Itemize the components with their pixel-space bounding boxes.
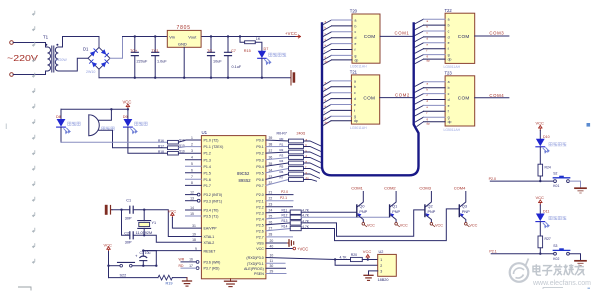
push button S2 (554, 180, 557, 183)
svg-text:b: b (448, 86, 450, 90)
svg-text:R24: R24 (545, 165, 551, 169)
svg-text:P0.7: P0.7 (256, 184, 263, 188)
wire LED to R24 (539, 147, 541, 164)
svg-text:f: f (448, 47, 449, 51)
svg-text:P1.7: P1.7 (204, 184, 211, 188)
svg-text:f: f (448, 110, 449, 114)
wire S2 to ground (569, 181, 580, 188)
wire bridge + output (110, 37, 123, 59)
LED D9 run (127, 109, 129, 119)
connector T22 (445, 13, 475, 63)
wire VCC to EA/VPP (172, 218, 201, 229)
T20 COM wire (380, 35, 412, 37)
bus main loop (322, 24, 419, 176)
svg-text:P3.3 (INT1): P3.3 (INT1) (204, 199, 223, 203)
svg-text:P0.5: P0.5 (256, 171, 263, 175)
wire TXD P3.1 stub (266, 262, 285, 264)
svg-text:K02: K02 (553, 257, 559, 261)
power port VCC at Q2 (430, 223, 433, 226)
svg-text:P0.2: P0.2 (256, 152, 263, 156)
wire P2.2 stub (266, 206, 293, 208)
svg-text:P2.1: P2.1 (256, 199, 263, 203)
push button S3 (554, 252, 557, 255)
power port +VCC (296, 35, 301, 38)
faint underline dash (543, 287, 563, 289)
svg-text:VCC: VCC (536, 121, 545, 126)
resistor R11 (266, 211, 290, 214)
svg-text:D10: D10 (543, 135, 550, 139)
svg-text:TC: TC (207, 49, 212, 53)
svg-text:c: c (354, 91, 356, 95)
svg-text:P0.4: P0.4 (256, 165, 263, 169)
svg-text:3: 3 (380, 270, 382, 274)
svg-text:P2.0: P2.0 (281, 190, 288, 194)
svg-text:U2: U2 (379, 250, 384, 254)
capacitor C1 30P (130, 206, 133, 213)
svg-text:P2.0: P2.0 (256, 193, 263, 197)
resistor R27 (538, 236, 543, 248)
resistor R17 (168, 146, 179, 150)
svg-text:R18: R18 (158, 150, 164, 154)
svg-text:e: e (355, 42, 357, 46)
svg-text:dp: dp (325, 120, 329, 124)
svg-text:R16: R16 (158, 139, 164, 143)
ground key2 (575, 261, 586, 266)
svg-text:P1.2: P1.2 (204, 152, 211, 156)
SECTION: bus and connectors (266, 8, 509, 186)
pin P3.6 WR (196, 261, 199, 264)
svg-text:+VCC: +VCC (285, 31, 297, 36)
wire reset node (143, 251, 156, 266)
svg-text:VCC: VCC (123, 100, 132, 105)
svg-text:P0.6: P0.6 (256, 178, 263, 182)
pin VCC wire to +VCC (266, 248, 293, 250)
svg-text:P1.5: P1.5 (204, 171, 211, 175)
resistor R19 zigzag (158, 275, 172, 280)
svg-text:14: 14 (190, 206, 194, 210)
wire VCC down reset (108, 252, 110, 278)
svg-text:40: 40 (270, 244, 274, 248)
svg-text:P3.2 (INT0): P3.2 (INT0) (204, 193, 223, 197)
wire AC bottom (13, 74, 45, 76)
svg-text:13: 13 (190, 197, 194, 201)
svg-text:COM: COM (458, 34, 470, 39)
wire R27 to node (539, 248, 541, 254)
svg-text:20: 20 (270, 239, 274, 243)
svg-text:c: c (355, 30, 357, 34)
watermark hanzi 友 (575, 264, 585, 275)
regulator U3 7805 (167, 30, 201, 47)
ground reset (183, 278, 192, 287)
wire buzzer top (98, 109, 111, 120)
svg-text:P0.0: P0.0 (256, 139, 263, 143)
transistor Q1 PNP (390, 192, 401, 223)
wire S3 to ground (569, 254, 580, 261)
wire PSEN stub (266, 273, 286, 275)
svg-text:RESET: RESET (204, 250, 217, 254)
wire base Q0 (301, 211, 357, 213)
svg-text:P2.1: P2.1 (280, 196, 287, 200)
svg-text:R5: R5 (280, 165, 284, 169)
svg-text:dp: dp (427, 121, 431, 125)
wire R15 to LED (255, 42, 262, 51)
svg-text:C2: C2 (124, 231, 129, 235)
svg-text:VCC: VCC (536, 195, 545, 200)
svg-text:5: 5 (191, 162, 193, 166)
svg-text:PNP: PNP (428, 210, 436, 214)
capacitor C7 0.1uF (225, 37, 232, 78)
LED D10 (539, 130, 541, 138)
svg-text:R14: R14 (282, 225, 288, 229)
power port VCC at Q1 (395, 223, 398, 226)
switch S22 reset (109, 265, 120, 267)
svg-text:R11: R11 (282, 208, 288, 212)
svg-text:b: b (354, 85, 356, 89)
svg-text:dp: dp (325, 60, 329, 64)
svg-text:1K: 1K (256, 37, 261, 41)
svg-text:(TXD)P3.1: (TXD)P3.1 (247, 262, 264, 266)
svg-text:240Ω: 240Ω (297, 132, 306, 136)
wire P2.0 stub (266, 194, 293, 196)
svg-text:COM1: COM1 (351, 185, 363, 190)
svg-text:8: 8 (191, 181, 193, 185)
svg-text:31: 31 (192, 224, 196, 228)
resistor R13 (266, 223, 290, 225)
svg-text:d: d (448, 98, 450, 102)
resistor R15 (240, 37, 245, 43)
svg-text:f: f (355, 48, 356, 52)
svg-text:COM: COM (458, 96, 470, 101)
connector T20 (352, 14, 380, 63)
svg-text:Vout: Vout (188, 35, 197, 40)
resistor R14 (266, 229, 290, 231)
svg-text:COM2: COM2 (384, 185, 396, 190)
svg-text:38: 38 (269, 142, 273, 146)
svg-text:COM1: COM1 (395, 31, 410, 36)
resistor R4 and wires (266, 163, 289, 166)
svg-text:COM3: COM3 (489, 30, 504, 35)
svg-text:D8: D8 (56, 115, 61, 119)
svg-text:8V20W: 8V20W (55, 58, 67, 62)
svg-text:COM2: COM2 (395, 93, 410, 98)
resistor R6 and wires (266, 174, 289, 179)
watermark square (587, 123, 591, 127)
svg-text:PNP: PNP (392, 210, 400, 214)
svg-text:COM4: COM4 (489, 93, 504, 98)
svg-text:R20: R20 (351, 253, 357, 257)
terminal P1 top (10, 41, 14, 45)
svg-text:EA/VPP: EA/VPP (204, 227, 218, 231)
wire R19 to ground (172, 277, 187, 279)
svg-text:P2.1: P2.1 (489, 249, 496, 253)
wire branch to pin2 (335, 260, 378, 266)
svg-text:Q3: Q3 (462, 204, 467, 208)
svg-text:Y1: Y1 (152, 221, 157, 225)
pin P3.4 T0 (186, 209, 202, 211)
svg-text:XTAL1: XTAL1 (204, 235, 215, 239)
svg-text:P2.6: P2.6 (256, 229, 263, 233)
svg-text:TC+: TC+ (130, 49, 138, 53)
wire to pin1 through resistor (335, 259, 378, 261)
svg-text:COM: COM (363, 95, 375, 100)
svg-text:37: 37 (269, 149, 273, 153)
wire base Q1 (301, 216, 389, 218)
transistor Q0 PNP (357, 192, 368, 223)
svg-text:6: 6 (191, 169, 193, 173)
svg-text:T21: T21 (350, 70, 358, 75)
T23 COM wire (475, 97, 509, 99)
svg-text:21: 21 (269, 190, 273, 194)
svg-text:S2: S2 (553, 172, 557, 176)
power port VCC at Q3 (465, 223, 468, 226)
crystal Y1 11.0592M (143, 210, 145, 236)
wire bottom reset (109, 277, 159, 279)
svg-text:1: 1 (380, 258, 382, 262)
resistor R0 and wires (266, 140, 289, 141)
svg-text:R27: R27 (545, 237, 551, 241)
svg-text:0.1uF: 0.1uF (232, 65, 242, 69)
svg-text:COM: COM (364, 34, 376, 39)
svg-text:dp: dp (448, 120, 452, 124)
resistor R1 and wires (266, 146, 289, 148)
svg-text:LG5011AH: LG5011AH (350, 65, 367, 69)
svg-text:D11: D11 (543, 210, 549, 214)
svg-text:VSS: VSS (257, 242, 265, 246)
pin numbers left (189, 136, 197, 268)
svg-text:R17: R17 (158, 144, 164, 148)
svg-text:1: 1 (191, 136, 193, 140)
svg-text:P3.7 (RD): P3.7 (RD) (204, 267, 220, 271)
resistor R5 and wires (266, 169, 289, 173)
wire rail alarm top (61, 108, 128, 110)
svg-text:e: e (354, 103, 356, 107)
svg-text:R12: R12 (282, 214, 288, 218)
svg-text:11: 11 (270, 259, 274, 263)
capacitor TC+ 220uF (131, 37, 138, 78)
resistor R16 (168, 140, 179, 144)
SECTION: transistors (266, 185, 478, 240)
watermark hanzi 电 (533, 264, 585, 275)
paragraph marks column (33, 11, 35, 264)
svg-text:LG5011AH: LG5011AH (444, 65, 461, 69)
svg-text:e: e (448, 104, 450, 108)
svg-text:R19: R19 (166, 282, 173, 286)
svg-text:www.elecfans.com: www.elecfans.com (532, 280, 591, 287)
svg-text:e: e (448, 41, 450, 45)
svg-text:28: 28 (269, 233, 273, 237)
transistor Q3 PNP (459, 192, 470, 223)
svg-text:C3 10u: C3 10u (140, 251, 151, 255)
svg-text:VCC: VCC (363, 249, 372, 254)
svg-text:g: g (448, 116, 450, 120)
transistor Q2 PNP (425, 192, 436, 223)
svg-text:24: 24 (269, 209, 273, 213)
svg-text:29: 29 (270, 269, 274, 273)
svg-text:d: d (355, 36, 357, 40)
svg-text:P1.1 (T2EX): P1.1 (T2EX) (204, 145, 224, 149)
svg-text:RD: RD (179, 264, 184, 268)
svg-text:89C52: 89C52 (237, 171, 250, 176)
svg-text:c: c (448, 29, 450, 33)
svg-text:P1.6: P1.6 (204, 178, 211, 182)
wire pin3 to ground (369, 271, 378, 275)
svg-text:dp: dp (306, 176, 310, 180)
capacitor TC1 (152, 37, 159, 78)
svg-text:15: 15 (190, 212, 194, 216)
svg-text:K01: K01 (553, 184, 559, 188)
svg-text:R4: R4 (280, 159, 284, 163)
svg-text:P1.0 (T2): P1.0 (T2) (204, 139, 219, 143)
wire ALE stub (266, 267, 286, 269)
SECTION: power supply (7, 25, 301, 85)
wire R24 to node (539, 176, 541, 181)
svg-text:10uF: 10uF (213, 60, 222, 64)
SECTION: mcu (179, 130, 309, 286)
pin VSS wire and ground (266, 242, 288, 244)
svg-text:R15: R15 (244, 49, 251, 53)
svg-text:7805: 7805 (177, 25, 191, 31)
pin P3.7 RD (196, 267, 199, 270)
svg-text:P3.6 (WR): P3.6 (WR) (204, 261, 221, 265)
connector T21 (351, 75, 379, 124)
svg-text:T23: T23 (445, 70, 453, 75)
svg-text:b: b (355, 24, 357, 28)
transformer T1 (46, 43, 61, 75)
svg-text:P2.3: P2.3 (256, 211, 263, 215)
svg-text:U1: U1 (202, 130, 208, 135)
svg-text:COM3: COM3 (419, 185, 431, 190)
pin P3.5 T1 (186, 215, 202, 217)
svg-text:1.0uF: 1.0uF (157, 60, 167, 64)
power port VCC at Q0 (362, 223, 365, 226)
wire AC top (13, 42, 45, 44)
svg-text:dp: dp (355, 58, 359, 62)
svg-text:COM4: COM4 (454, 185, 466, 190)
svg-text:d: d (448, 35, 450, 39)
svg-text:ALE(PROG): ALE(PROG) (244, 267, 264, 271)
watermark hanzi 子 (542, 266, 552, 276)
junction dots PSU (134, 35, 263, 79)
mcu U1 89C52 (201, 136, 266, 279)
svg-text:7: 7 (191, 175, 193, 179)
svg-text:S3: S3 (553, 244, 557, 248)
svg-text:19: 19 (192, 232, 196, 236)
svg-text:2W10: 2W10 (86, 70, 95, 74)
wire D8 bottom rail (61, 141, 168, 143)
tiny blue tick (588, 287, 591, 289)
svg-text:LG5011AH: LG5011AH (444, 128, 461, 132)
T23 pin taps from bus (415, 82, 424, 127)
svg-text:220uF: 220uF (137, 60, 148, 64)
svg-text:a: a (448, 18, 450, 22)
svg-text:VCC: VCC (367, 224, 375, 228)
svg-text:dp: dp (448, 58, 452, 62)
SECTION: alarm row (56, 100, 201, 155)
resistor R12 (266, 217, 290, 219)
bridge rectifier D1 (88, 37, 110, 78)
resistor R3 and wires (266, 158, 289, 160)
svg-text:+VCC: +VCC (297, 246, 308, 251)
T21 COM wire (380, 97, 412, 99)
sensor U2 DS18B20 (378, 254, 397, 276)
small tick left edge (5, 124, 7, 130)
LED D11 (539, 205, 541, 214)
wire P3.0 to sensor (266, 258, 335, 260)
svg-text:P0.1: P0.1 (256, 145, 263, 149)
wire R18 to pin3 (178, 152, 201, 154)
svg-text:dp: dp (427, 59, 431, 63)
svg-text:P1.4: P1.4 (204, 165, 211, 169)
svg-text:R13: R13 (282, 219, 288, 223)
ground PSU (291, 71, 295, 86)
wire secondary top to rail (60, 37, 99, 48)
svg-text:R2: R2 (280, 148, 284, 152)
svg-text:D7: D7 (264, 47, 269, 51)
svg-text:18B20: 18B20 (378, 278, 389, 282)
svg-text:LG5011AH: LG5011AH (350, 126, 367, 130)
pin P3.2 INT0 (197, 193, 200, 196)
junction dots crystal (120, 209, 145, 237)
watermark hanzi 发 (554, 264, 563, 275)
wire secondary bottom to bridge left vertex (60, 58, 88, 71)
svg-text:30P: 30P (125, 241, 132, 245)
svg-text:VCC: VCC (104, 243, 113, 248)
svg-text:VCC: VCC (435, 224, 443, 228)
svg-text:c: c (448, 92, 450, 96)
svg-text:C1: C1 (126, 199, 131, 203)
wire P2.1 stub (266, 200, 293, 202)
ground crystal (105, 205, 112, 215)
svg-text:g: g (448, 53, 450, 57)
svg-text:22: 22 (269, 197, 273, 201)
resistor R24 (538, 164, 543, 176)
resistor R20 4.7K (351, 257, 363, 261)
svg-text:(RXD)P3.0: (RXD)P3.0 (246, 256, 263, 260)
svg-text:R0-R7: R0-R7 (277, 132, 287, 136)
svg-text:P3.4 (T0): P3.4 (T0) (204, 209, 219, 213)
svg-text:12: 12 (190, 190, 194, 194)
svg-text:3: 3 (191, 149, 193, 153)
svg-text:T1: T1 (43, 35, 49, 40)
svg-text:PNP: PNP (359, 210, 367, 214)
svg-text:16: 16 (189, 258, 193, 262)
connector T23 (445, 76, 475, 126)
junction dot led1 (539, 180, 541, 182)
ground key1 (575, 188, 586, 193)
svg-text:Vin: Vin (169, 35, 175, 40)
wire R16 to pin1 (178, 140, 201, 142)
resistor R2 and wires (266, 152, 289, 153)
svg-text:2: 2 (380, 264, 382, 268)
svg-text:Q2: Q2 (428, 204, 433, 208)
junction dots alarm (110, 108, 129, 110)
svg-text:g: g (355, 54, 357, 58)
svg-text:a: a (448, 80, 450, 84)
svg-text:+: + (135, 253, 138, 258)
wire C2 to XTAL2 (133, 235, 201, 242)
wire base Q2 (301, 210, 425, 236)
pin stubs left P1.3-P1.7 (186, 160, 202, 186)
svg-text:39: 39 (269, 136, 273, 140)
svg-text:WR: WR (179, 258, 185, 262)
wire gnd to C1 (112, 209, 130, 211)
junction dot led2 (539, 253, 541, 255)
svg-text:VCC: VCC (400, 224, 408, 228)
watermark hanzi 烧 (564, 264, 574, 275)
wire 7805 gnd pin (183, 47, 185, 77)
T20 pin taps from bus (323, 20, 332, 65)
wire P2.1 row (491, 253, 553, 255)
